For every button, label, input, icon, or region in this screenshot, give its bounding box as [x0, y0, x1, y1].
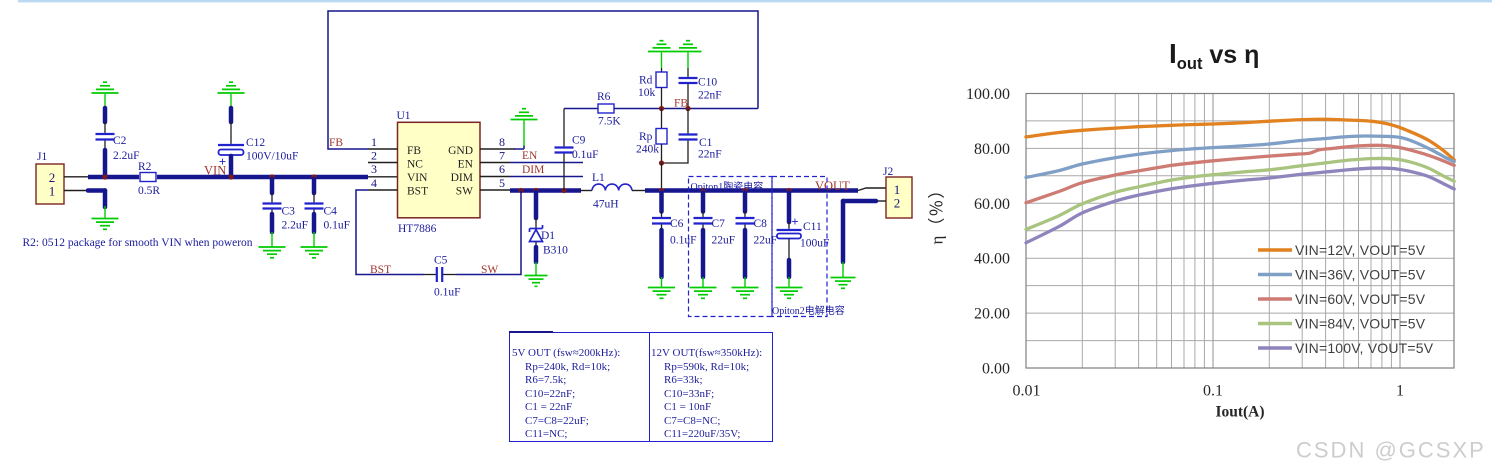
- curve purple VIN=100V, VOUT=5V: [1026, 168, 1454, 243]
- junction C4/VIN: [311, 174, 316, 179]
- U1 pin 5: [480, 176, 510, 190]
- svg-text:10k: 10k: [638, 87, 656, 99]
- table divider: [649, 332, 650, 443]
- wire C7 to ground: [702, 225, 704, 288]
- svg-text:100V/10uF: 100V/10uF: [246, 151, 298, 163]
- svg-text:EN: EN: [458, 159, 474, 171]
- svg-text:R2: 0512 package for smooth VI: R2: 0512 package for smooth VIN when pow…: [23, 237, 253, 249]
- chart y tick labels: [966, 86, 1010, 378]
- junction C11/VOUT: [786, 188, 791, 193]
- svg-text:Opiton2电解电容: Opiton2电解电容: [772, 304, 845, 317]
- svg-text:100uF: 100uF: [800, 238, 829, 250]
- svg-text:J2: J2: [883, 166, 893, 178]
- U1 pin 1: [368, 135, 398, 149]
- svg-text:Rp: Rp: [639, 131, 653, 143]
- wire: top light-blue page divider: [18, 0, 1492, 2]
- wire R6 to FB node: [614, 108, 758, 110]
- wire C6 to VOUT rail: [659, 193, 664, 217]
- wire DIM: [510, 176, 583, 178]
- svg-text:Opiton1陶瓷电容: Opiton1陶瓷电容: [691, 180, 764, 193]
- junction C2/VIN: [102, 174, 107, 179]
- junction C12/VIN: [228, 174, 233, 179]
- svg-text:C9: C9: [572, 135, 586, 147]
- svg-text:VIN=84V, VOUT=5V: VIN=84V, VOUT=5V: [1295, 316, 1426, 332]
- svg-text:DIM: DIM: [451, 172, 473, 184]
- svg-text:2.2uF: 2.2uF: [282, 220, 309, 232]
- svg-text:0.1: 0.1: [1203, 383, 1223, 400]
- svg-text:B310: B310: [543, 245, 568, 257]
- legend entry VIN=60V, VOUT=5V: [1258, 291, 1426, 307]
- wire Rp to node: [661, 144, 663, 163]
- table: configuration values: [509, 332, 773, 443]
- wire BST from pin4 down: [356, 190, 424, 275]
- svg-text:1: 1: [371, 135, 377, 149]
- svg-text:C3: C3: [282, 206, 296, 218]
- capacitor C11 (polarized): [777, 214, 830, 250]
- chart x tick labels: [1013, 383, 1405, 400]
- U1 pin 6: [480, 162, 510, 177]
- legend entry VIN=12V, VOUT=5V: [1258, 242, 1426, 258]
- wire C2 to ground: [104, 94, 106, 133]
- wire C12 to ground: [230, 94, 232, 144]
- table text 5V column: [0, 0, 1, 1]
- dashed box Option1 ceramic caps: [689, 177, 773, 317]
- capacitor C8: [736, 218, 778, 247]
- svg-text:100.00: 100.00: [966, 86, 1010, 103]
- svg-text:BST: BST: [407, 186, 428, 198]
- capacitor C10: [679, 77, 722, 102]
- junction Rd/FB: [659, 106, 664, 111]
- wire SW rail: [510, 188, 581, 193]
- junction C3/VIN: [269, 174, 274, 179]
- wire C4 to ground: [313, 210, 315, 247]
- svg-text:240k: 240k: [636, 144, 659, 156]
- curve blue VIN=36V, VOUT=5V: [1026, 136, 1454, 178]
- svg-text:80.00: 80.00: [974, 141, 1010, 158]
- wire U1 pin3 stub: [368, 176, 398, 178]
- capacitor C4: [305, 204, 351, 232]
- wire VOUT rail: [645, 188, 858, 193]
- svg-text:GND: GND: [448, 145, 473, 157]
- capacitor C9: [555, 135, 599, 162]
- svg-text:VIN: VIN: [204, 164, 226, 178]
- svg-text:C8: C8: [754, 218, 768, 230]
- wire D1 to ground: [534, 247, 539, 276]
- svg-text:2: 2: [371, 149, 377, 163]
- wire C10 to FB line: [687, 84, 689, 108]
- capacitor C2: [96, 134, 140, 162]
- resistor R6: [597, 91, 621, 128]
- legend entry VIN=84V, VOUT=5V: [1258, 316, 1426, 332]
- svg-text:22uF: 22uF: [754, 235, 778, 247]
- wire C3 to ground: [271, 210, 273, 247]
- wire C9 top to R6: [564, 108, 598, 110]
- op-amp U1 HT7886 body: [397, 110, 481, 235]
- wire FB to Rp: [661, 109, 663, 129]
- wire C1 bottom elbow: [662, 141, 689, 163]
- ground under D1: [525, 276, 548, 287]
- svg-text:R2: R2: [138, 161, 152, 173]
- wire SW to D1: [534, 192, 539, 218]
- wire C2 to VIN rail: [104, 141, 106, 176]
- svg-text:22uF: 22uF: [712, 235, 736, 247]
- wire EN: [510, 162, 583, 164]
- svg-text:NC: NC: [407, 159, 423, 171]
- legend entry VIN=36V, VOUT=5V: [1258, 267, 1426, 283]
- ground under C4: [301, 247, 328, 258]
- svg-text:22nF: 22nF: [698, 149, 722, 161]
- svg-text:20.00: 20.00: [974, 306, 1010, 323]
- wire FB to C1: [687, 109, 689, 134]
- wire C9 vertical: [563, 109, 565, 191]
- wire C3 to VIN rail: [270, 179, 275, 202]
- chart plot border: [1026, 94, 1454, 369]
- junction C7/VOUT: [700, 188, 705, 193]
- junction C8/VOUT: [742, 188, 747, 193]
- U1 pin 2: [368, 149, 398, 163]
- svg-text:C4: C4: [324, 206, 338, 218]
- svg-text:0.1uF: 0.1uF: [572, 149, 599, 161]
- wire VOUT to J2 pin1: [858, 188, 886, 191]
- svg-text:DIM: DIM: [522, 164, 544, 176]
- svg-text:8: 8: [499, 135, 505, 149]
- wire C7 to VOUT rail: [701, 193, 706, 217]
- dashed box Option2 electrolytic cap: [772, 177, 827, 317]
- svg-text:Iout(A): Iout(A): [1215, 404, 1264, 421]
- resistor R2: [138, 161, 160, 197]
- table top dark segment: [509, 331, 553, 334]
- connector J1: [36, 151, 64, 204]
- svg-text:η（％）: η（％）: [928, 181, 947, 245]
- ground under C7: [690, 288, 717, 299]
- wire C8 to VOUT rail: [743, 193, 748, 217]
- svg-text:C7: C7: [712, 218, 726, 230]
- svg-text:7.5K: 7.5K: [598, 116, 621, 128]
- svg-text:0.1uF: 0.1uF: [434, 287, 461, 299]
- svg-text:EN: EN: [522, 150, 538, 162]
- svg-text:0.1uF: 0.1uF: [670, 235, 697, 247]
- svg-text:VIN: VIN: [407, 172, 428, 184]
- wire C12 to VIN rail: [229, 156, 234, 176]
- svg-text:R6: R6: [597, 91, 611, 103]
- connector J2: [883, 166, 912, 218]
- capacitor C5: [434, 255, 461, 299]
- svg-text:VIN=100V, VOUT=5V: VIN=100V, VOUT=5V: [1295, 340, 1434, 356]
- svg-text:4: 4: [371, 176, 377, 190]
- ground above C2: [92, 82, 119, 93]
- capacitor C6: [652, 218, 697, 247]
- wire C10 to ground: [687, 52, 689, 77]
- svg-text:1: 1: [49, 184, 56, 199]
- svg-text:5: 5: [499, 176, 505, 190]
- svg-text:C10: C10: [698, 77, 717, 89]
- svg-text:BST: BST: [370, 264, 391, 276]
- svg-text:47uH: 47uH: [593, 199, 619, 211]
- ground above U1 pin8: [511, 109, 538, 120]
- svg-text:D1: D1: [541, 230, 555, 242]
- svg-text:0.01: 0.01: [1013, 383, 1041, 400]
- svg-text:VIN=12V, VOUT=5V: VIN=12V, VOUT=5V: [1295, 242, 1426, 258]
- wire C6 to ground: [661, 225, 663, 288]
- ground under C8: [732, 288, 759, 299]
- wire VIN rail main segment: [157, 175, 368, 180]
- svg-text:40.00: 40.00: [974, 251, 1010, 268]
- svg-text:0.5R: 0.5R: [138, 185, 160, 197]
- wire Rd to FB line: [661, 88, 663, 109]
- wire C5 right stub: [443, 274, 456, 276]
- curve green VIN=84V, VOUT=5V: [1026, 158, 1454, 229]
- ground above C12: [218, 82, 245, 93]
- svg-text:60.00: 60.00: [974, 196, 1010, 213]
- U1 pin 8: [480, 135, 515, 149]
- svg-text:2.2uF: 2.2uF: [113, 150, 140, 162]
- junction C10/FB: [685, 106, 690, 111]
- wire J1 pin1 to ground: [88, 191, 105, 219]
- svg-text:VOUT: VOUT: [815, 179, 850, 193]
- svg-text:22nF: 22nF: [698, 90, 722, 102]
- ground under C6: [648, 288, 675, 299]
- resistor Rp: [636, 129, 667, 156]
- U1 pin 4: [368, 176, 398, 190]
- chart gridlines: [1026, 94, 1454, 369]
- svg-text:C11: C11: [803, 221, 822, 233]
- diode D1 B310: [530, 218, 569, 257]
- wire Rd to ground: [661, 52, 663, 72]
- svg-text:SW: SW: [481, 264, 498, 276]
- svg-text:C2: C2: [113, 135, 127, 147]
- junction SW/C5 wire: [518, 188, 523, 193]
- svg-text:U1: U1: [397, 110, 411, 122]
- junction Rp/C1: [659, 160, 664, 165]
- capacitor C3: [263, 204, 309, 232]
- junction divider/VOUT: [659, 188, 664, 193]
- wire SW rail to L1: [580, 190, 592, 192]
- ground above Rd: [648, 41, 675, 52]
- wire FB from pin1 up and across top: [328, 11, 758, 149]
- wire C11 to VOUT rail: [787, 193, 792, 229]
- junction SW/C9: [561, 188, 566, 193]
- wire J2 pin2 to ground: [843, 201, 876, 278]
- svg-text:CSDN @GCSXP: CSDN @GCSXP: [1296, 438, 1486, 463]
- svg-text:3: 3: [371, 162, 377, 176]
- svg-text:C5: C5: [434, 255, 448, 267]
- svg-text:FB: FB: [329, 137, 343, 149]
- capacitor C12 (polarized): [218, 137, 298, 169]
- wire J1 pin1 stub: [64, 190, 90, 192]
- wire GND pin8 elbow: [514, 121, 524, 150]
- svg-text:0.00: 0.00: [982, 361, 1010, 378]
- ground under C3: [259, 247, 286, 258]
- wire J2 pin2 stub: [874, 200, 886, 202]
- svg-text:C1: C1: [699, 137, 713, 149]
- chart major gridlines: [1213, 94, 1400, 369]
- legend entry VIN=100V, VOUT=5V: [1258, 340, 1434, 356]
- curve red VIN=60V, VOUT=5V: [1026, 145, 1454, 203]
- wire C11 to ground: [788, 239, 790, 288]
- svg-text:C12: C12: [246, 137, 265, 149]
- svg-text:2: 2: [894, 196, 901, 211]
- svg-text:C6: C6: [670, 218, 684, 230]
- wire C5 left stub: [424, 274, 436, 276]
- svg-text:Rd: Rd: [639, 75, 653, 87]
- svg-text:1: 1: [1396, 383, 1404, 400]
- svg-text:VIN=60V, VOUT=5V: VIN=60V, VOUT=5V: [1295, 291, 1426, 307]
- svg-text:6: 6: [499, 162, 505, 176]
- resistor Rd: [638, 72, 667, 99]
- svg-text:FB: FB: [407, 145, 421, 157]
- svg-text:Iout vs η: Iout vs η: [1169, 38, 1259, 73]
- wire divider to VOUT rail: [661, 163, 663, 191]
- capacitor C7: [694, 218, 736, 247]
- capacitor C1: [679, 135, 722, 161]
- wire L1 to VOUT rail: [632, 190, 646, 192]
- svg-text:HT7886: HT7886: [398, 223, 437, 235]
- ground under C11: [776, 288, 803, 299]
- svg-text:0.1uF: 0.1uF: [324, 220, 351, 232]
- svg-text:+: +: [791, 214, 798, 229]
- wire C8 to ground: [744, 225, 746, 288]
- inductor L1: [592, 172, 632, 211]
- svg-text:J1: J1: [37, 151, 47, 163]
- wire SW down to C5: [456, 191, 521, 275]
- curve orange VIN=12V, VOUT=5V: [1026, 119, 1454, 160]
- wire J1 pin2 stub: [64, 176, 90, 178]
- wire C4 to VIN rail: [312, 179, 317, 202]
- svg-text:VIN=36V, VOUT=5V: VIN=36V, VOUT=5V: [1295, 267, 1426, 283]
- ground under J2: [831, 278, 856, 289]
- U1 pin 7: [480, 149, 510, 163]
- svg-text:L1: L1: [592, 172, 605, 184]
- ground under J1: [92, 219, 119, 230]
- svg-text:SW: SW: [456, 186, 473, 198]
- svg-text:7: 7: [499, 149, 505, 163]
- junction SW/D1: [533, 188, 538, 193]
- wire VIN rail left segment: [88, 175, 139, 180]
- ground above C10: [675, 41, 702, 52]
